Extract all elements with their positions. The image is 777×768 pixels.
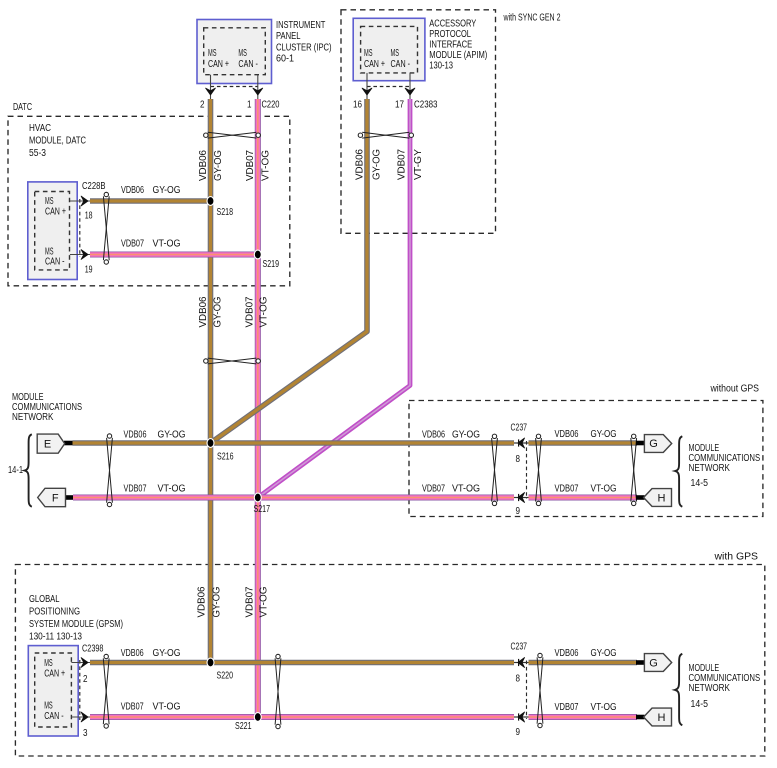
svg-text:GY-OG: GY-OG [153, 648, 181, 659]
svg-text:VT-OG: VT-OG [259, 297, 270, 328]
connector C237 label and pins 8 9 (without GPS) [511, 423, 528, 518]
svg-text:NETWORK: NETWORK [689, 683, 731, 694]
node 14-5 module communications network label (with GPS) [689, 663, 761, 694]
svg-text:E: E [44, 439, 51, 451]
svg-text:VDB07: VDB07 [121, 702, 144, 713]
svg-text:GY-OG: GY-OG [213, 297, 224, 328]
svg-text:CAN +: CAN + [364, 59, 385, 70]
wire VDB06 GY-OG from C237 pin 8 to tag G (with GPS) [529, 660, 638, 666]
wire VDB07 VT-GY from APIM pin 17 to S217 [258, 99, 410, 498]
label VDB07 VT-OG (GPSM wire) [121, 702, 181, 713]
connector C237 pin 8 arrow (with GPS) [514, 658, 529, 668]
splice S221 [235, 713, 261, 732]
connector C228B pin line [79, 199, 81, 257]
twisted pair symbol with GPS left [275, 654, 281, 728]
svg-text:ACCESSORY: ACCESSORY [429, 19, 476, 30]
twisted pair symbol without GPS left [492, 434, 498, 506]
pin 1 IPC MS CAN- [247, 75, 263, 111]
svg-text:18: 18 [85, 211, 93, 222]
svg-text:S221: S221 [235, 721, 252, 732]
svg-text:VDB07: VDB07 [396, 149, 407, 180]
svg-text:VDB07: VDB07 [555, 702, 579, 713]
pin 19 HVAC MS CAN- [70, 250, 93, 276]
svg-text:VDB06: VDB06 [555, 429, 579, 440]
connector C2398 pin line [79, 660, 81, 720]
svg-text:VDB07: VDB07 [245, 297, 256, 328]
connector C237 pin line (without GPS) [526, 441, 528, 499]
svg-text:16: 16 [353, 100, 362, 111]
svg-text:GY-OG: GY-OG [371, 149, 382, 180]
svg-text:VDB06: VDB06 [121, 648, 144, 659]
node E network tag [37, 434, 72, 453]
svg-text:2: 2 [83, 674, 88, 685]
svg-text:VDB06: VDB06 [422, 430, 445, 441]
svg-text:CAN -: CAN - [391, 59, 411, 70]
svg-text:C237: C237 [511, 642, 528, 653]
wire VDB07 VT-OG from tag F through S217 to C237 pin 9 [73, 494, 514, 500]
svg-text:HVAC: HVAC [29, 123, 51, 134]
svg-text:C237: C237 [511, 423, 528, 434]
module U3 HVAC Module DATC [28, 123, 86, 280]
label VDB07 VT-OG vertical (IPC drop upper) [245, 150, 272, 181]
pin 3 GPSM MS CAN- [71, 712, 90, 739]
svg-text:CAN +: CAN + [208, 59, 229, 70]
svg-text:CAN +: CAN + [44, 669, 65, 680]
svg-text:without GPS: without GPS [710, 384, 760, 395]
svg-text:VDB06: VDB06 [354, 149, 365, 180]
label VDB07 VT-OG vertical (bottom drop) [245, 587, 270, 618]
svg-text:G: G [649, 438, 658, 450]
svg-text:S219: S219 [263, 259, 280, 270]
svg-text:14-5: 14-5 [691, 699, 709, 710]
svg-text:VT-OG: VT-OG [259, 587, 270, 618]
wire VDB06 GY-OG from APIM pin 16 to S216 [211, 99, 368, 443]
svg-text:S218: S218 [217, 207, 234, 218]
wire VDB07 VT-OG from HVAC pin 19 to S219 [90, 251, 258, 257]
twisted pair symbol without GPS right [631, 434, 637, 506]
splice S220 [207, 658, 233, 681]
pin 18 HVAC MS CAN+ [70, 196, 93, 221]
svg-text:POSITIONING: POSITIONING [29, 607, 80, 618]
svg-text:VDB07: VDB07 [245, 150, 256, 181]
svg-text:GLOBAL: GLOBAL [29, 594, 60, 605]
svg-text:VDB06: VDB06 [197, 587, 208, 618]
svg-text:GY-OG: GY-OG [158, 430, 186, 441]
svg-text:MS: MS [45, 196, 54, 207]
svg-text:C228B: C228B [82, 181, 106, 192]
svg-text:VT-OG: VT-OG [591, 702, 617, 713]
connector C2383 pin line [367, 86, 410, 88]
label VDB06 GY-OG vertical (APIM drop) [354, 149, 382, 180]
connector C220 pin line [211, 86, 258, 88]
with SYNC GEN 2 region dashed box [341, 10, 561, 234]
svg-text:H: H [658, 493, 666, 505]
label VDB07 VT-GY vertical (APIM drop) [396, 148, 424, 180]
svg-text:GY-OG: GY-OG [212, 587, 223, 618]
svg-text:VT-OG: VT-OG [591, 484, 617, 495]
label VDB06 GY-OG (without GPS left) [422, 430, 480, 441]
svg-text:MODULE, DATC: MODULE, DATC [29, 136, 86, 147]
wire VDB06 GY-OG from GPSM pin 2 through S220 to C237 pin 8 [90, 660, 514, 666]
twisted pair symbol IPC drop upper [204, 132, 261, 138]
svg-text:VDB06: VDB06 [121, 185, 144, 196]
svg-text:VDB07: VDB07 [422, 484, 445, 495]
label VDB06 GY-OG (HVAC wire) [121, 185, 181, 196]
pin 2 IPC MS CAN+ [200, 75, 215, 111]
twisted pair symbol with GPS right [537, 653, 543, 727]
svg-text:G: G [649, 658, 658, 670]
svg-text:VDB06: VDB06 [198, 150, 209, 181]
node H network tag (without GPS) [636, 489, 672, 507]
svg-text:130-13: 130-13 [429, 61, 453, 72]
label VDB07 VT-OG (without GPS left) [422, 484, 480, 495]
label VDB07 VT-OG (HVAC wire) [121, 239, 181, 250]
label VDB06 GY-OG vertical (IPC drop upper) [198, 150, 224, 181]
svg-text:55-3: 55-3 [29, 148, 46, 159]
svg-text:VDB06: VDB06 [198, 297, 209, 328]
node H network tag (with GPS) [636, 708, 672, 726]
label VDB06 GY-OG (E wire) [124, 430, 186, 441]
svg-text:8: 8 [516, 454, 521, 465]
svg-text:9: 9 [516, 506, 521, 517]
twisted pair symbol GPSM pair [103, 654, 109, 728]
svg-text:MS: MS [238, 48, 247, 59]
label VDB06 GY-OG vertical (bottom drop) [197, 587, 223, 618]
label VDB06 GY-OG (GPSM wire) [121, 648, 181, 659]
twisted pair symbol HVAC pair [103, 192, 109, 264]
svg-text:MS: MS [391, 48, 400, 59]
svg-text:MS: MS [44, 658, 53, 669]
svg-text:PANEL: PANEL [276, 31, 301, 42]
svg-text:MS: MS [208, 48, 217, 59]
svg-text:VT-GY: VT-GY [413, 148, 424, 180]
svg-text:GY-OG: GY-OG [213, 150, 224, 181]
svg-text:CAN -: CAN - [44, 711, 64, 722]
svg-text:VDB06: VDB06 [555, 648, 579, 659]
svg-text:130-11 130-13: 130-11 130-13 [29, 632, 82, 643]
twisted pair symbol without GPS mid [536, 434, 542, 506]
svg-text:VDB07: VDB07 [121, 239, 144, 250]
svg-text:S216: S216 [217, 452, 234, 463]
svg-text:VT-OG: VT-OG [153, 702, 181, 713]
brace 14-1 [8, 434, 32, 506]
label VDB06 GY-OG (without GPS right) [555, 429, 617, 440]
svg-text:GY-OG: GY-OG [591, 429, 617, 440]
svg-text:GY-OG: GY-OG [591, 648, 617, 659]
wire VDB06 GY-OG vertical from IPC pin 2 to S220 [208, 99, 214, 663]
connector C237 pin 9 arrow (without GPS) [514, 493, 529, 503]
wire VDB07 VT-OG from C237 pin 9 to tag H (with GPS) [529, 714, 638, 720]
connector C237 pin line (with GPS) [526, 661, 528, 720]
svg-text:S217: S217 [254, 504, 271, 515]
svg-text:8: 8 [516, 674, 521, 685]
svg-text:VT-OG: VT-OG [452, 484, 480, 495]
twisted pair symbol E/F pair [107, 434, 113, 507]
svg-text:CAN -: CAN - [238, 59, 258, 70]
node G network tag (with GPS) [636, 654, 672, 672]
svg-text:1: 1 [247, 100, 252, 111]
svg-text:MS: MS [364, 48, 373, 59]
module U4 Global Positioning System Module (GPSM) [28, 594, 123, 736]
svg-text:CAN -: CAN - [45, 257, 65, 268]
label VDB06 GY-OG vertical (IPC drop mid) [198, 297, 224, 328]
svg-text:GY-OG: GY-OG [153, 185, 181, 196]
svg-text:VDB06: VDB06 [124, 430, 147, 441]
svg-text:60-1: 60-1 [276, 54, 294, 65]
svg-text:VT-OG: VT-OG [261, 150, 272, 181]
DATC region dashed box [8, 102, 290, 286]
svg-text:MS: MS [44, 701, 53, 712]
svg-text:with GPS: with GPS [713, 552, 758, 563]
svg-text:VT-OG: VT-OG [153, 239, 181, 250]
label VDB07 VT-OG vertical (IPC drop mid) [245, 297, 270, 328]
splice S219 [254, 250, 279, 270]
svg-text:VDB07: VDB07 [245, 587, 256, 618]
node F network tag [38, 488, 73, 506]
svg-text:19: 19 [85, 265, 93, 276]
label VDB07 VT-OG (F wire) [124, 484, 186, 495]
wire VDB06 GY-OG from C237 pin 8 to tag G (without GPS) [529, 440, 638, 446]
module U2 Accessory Protocol Interface Module (APIM) [353, 18, 487, 80]
svg-text:SYSTEM MODULE (GPSM): SYSTEM MODULE (GPSM) [29, 619, 123, 630]
svg-text:VDB07: VDB07 [555, 484, 579, 495]
svg-text:CLUSTER (IPC): CLUSTER (IPC) [276, 42, 332, 53]
svg-text:NETWORK: NETWORK [12, 412, 54, 423]
connector C237 pin 8 arrow (without GPS) [514, 438, 529, 448]
svg-text:INSTRUMENT: INSTRUMENT [276, 20, 325, 31]
node G network tag (without GPS) [636, 435, 672, 453]
label VDB07 VT-OG (with GPS right) [555, 702, 617, 713]
wire VDB06 GY-OG from tag E through S216 to C237 pin 8 [73, 440, 515, 446]
splice S218 [207, 197, 233, 218]
svg-text:DATC: DATC [13, 102, 32, 113]
svg-text:2: 2 [200, 100, 205, 111]
svg-text:INTERFACE: INTERFACE [429, 40, 472, 51]
svg-text:S220: S220 [217, 671, 234, 682]
wire VDB06 GY-OG from HVAC pin 18 to S218 [90, 198, 211, 204]
connector C237 label and pins 8 9 (with GPS) [511, 642, 528, 739]
svg-text:VDB07: VDB07 [124, 484, 147, 495]
twisted pair symbol APIM drop [358, 132, 413, 138]
svg-text:VT-OG: VT-OG [158, 484, 186, 495]
wire VDB07 VT-OG from C237 pin 9 to tag H (without GPS) [529, 494, 638, 500]
brace 14-5 (with GPS) [675, 654, 708, 726]
svg-text:CAN +: CAN + [45, 207, 66, 218]
twisted pair symbol IPC drop mid [204, 358, 261, 364]
node 14-5 module communications network label (without GPS) [689, 443, 761, 474]
svg-text:GY-OG: GY-OG [452, 430, 480, 441]
label VDB07 VT-OG (without GPS right) [555, 484, 617, 495]
splice S217 [254, 493, 271, 515]
node 14-1 module communications network label [12, 392, 82, 423]
svg-text:with SYNC GEN 2: with SYNC GEN 2 [503, 13, 561, 24]
svg-text:H: H [658, 712, 666, 724]
brace 14-5 (without GPS) [675, 436, 708, 506]
with GPS region dashed box [15, 552, 764, 757]
svg-text:3: 3 [83, 728, 88, 739]
pin 2 GPSM MS CAN+ [71, 658, 90, 685]
svg-text:PROTOCOL: PROTOCOL [429, 29, 471, 40]
without GPS region dashed box [409, 384, 763, 517]
label VDB06 GY-OG (with GPS right) [555, 648, 617, 659]
pin 16 APIM MS CAN+ [353, 73, 372, 111]
module U1 Instrument Panel Cluster (IPC) [197, 20, 332, 84]
wire VDB07 VT-OG from GPSM pin 3 through S221 to C237 pin 9 [90, 714, 514, 720]
svg-text:14-5: 14-5 [691, 478, 709, 489]
svg-text:17: 17 [395, 100, 404, 111]
connector C237 pin 9 arrow (with GPS) [514, 712, 529, 722]
svg-text:14-1: 14-1 [8, 465, 23, 476]
wire VDB07 VT-OG vertical from IPC pin 1 to S221 [255, 99, 261, 717]
pin 17 APIM MS CAN- [395, 73, 415, 111]
svg-text:MODULE (APIM): MODULE (APIM) [429, 50, 487, 61]
svg-text:NETWORK: NETWORK [689, 463, 731, 474]
svg-text:C220: C220 [262, 100, 280, 111]
splice S216 [207, 439, 234, 463]
svg-text:C2383: C2383 [414, 100, 438, 111]
svg-text:F: F [52, 493, 59, 505]
svg-text:C2398: C2398 [82, 644, 104, 655]
svg-text:9: 9 [516, 727, 521, 738]
